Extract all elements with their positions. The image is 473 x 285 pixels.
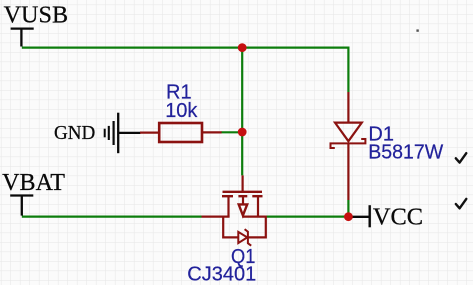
svg-text:B5817W: B5817W — [368, 141, 443, 163]
svg-text:VBAT: VBAT — [2, 170, 65, 196]
svg-text:VCC: VCC — [373, 204, 423, 230]
svg-text:CJ3401: CJ3401 — [187, 264, 256, 285]
svg-text:VUSB: VUSB — [4, 3, 69, 29]
svg-text:10k: 10k — [165, 100, 198, 122]
svg-text:GND: GND — [54, 123, 95, 144]
